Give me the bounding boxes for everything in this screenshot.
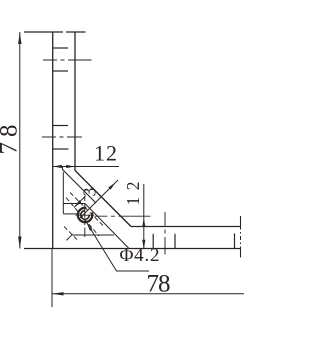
arrow left dim top (18, 32, 21, 44)
arrow vert dim up (142, 218, 145, 227)
top end line of vertical arm with extension to left dim (24, 31, 86, 33)
left outer edge of vertical arm (52, 32, 54, 249)
svg-text:78: 78 (147, 271, 171, 298)
right end line of horizontal arm (solid-dashdot-solid) (240, 216, 242, 258)
arrow gap dim lower (74, 200, 81, 207)
center line hole group 1 vertical arm (43, 59, 92, 61)
inner right edge of vertical arm (74, 32, 76, 171)
arrow vert dim down (142, 240, 145, 249)
pocket bottom left chamfer (66, 234, 72, 240)
center line hole horizontal arm (164, 212, 166, 255)
arrow leader tip (87, 222, 93, 231)
svg-text:78: 78 (0, 125, 23, 155)
gusset outer parallel line diag A with stub and shelf (63, 167, 97, 203)
tick slot lines on horizontal arm (152, 234, 154, 249)
hole inner ring arc (81, 211, 90, 220)
svg-text:12: 12 (94, 141, 117, 166)
tick slot lines on vertical arm group 2 (53, 125, 68, 127)
pocket left edge (62, 172, 64, 214)
arrow bottom dim left (52, 292, 63, 295)
vertical dimension line 12 (143, 184, 145, 249)
pocket mid edge to circle (63, 213, 78, 215)
svg-text:Φ4.2: Φ4.2 (120, 245, 160, 266)
hole vertical center line (84, 196, 86, 237)
arrow left dim bottom (18, 237, 21, 249)
bottom outer edge with extension to left dim (24, 248, 241, 250)
svg-text:12: 12 (123, 182, 143, 206)
hole outer ring with NE opening (78, 208, 92, 222)
gusset inner hypotenuse diag B (75, 171, 131, 227)
hole horizontal center line (76, 214, 95, 216)
bottom dimension left extension (51, 249, 53, 308)
leader line phi 4.2 (87, 222, 150, 271)
svg-text:3: 3 (79, 188, 99, 197)
gap dimension line 3 diagonal (80, 180, 118, 218)
top dimension line 12 (53, 166, 119, 168)
pocket bottom edge (73, 234, 114, 236)
arrow gap dim upper (108, 183, 115, 190)
leader to text 3 (74, 196, 86, 208)
hidden hole wall line 2 (66, 198, 99, 237)
pocket top edge (63, 203, 85, 205)
hidden pocket wall line lower left (64, 227, 78, 241)
top inner edge of horizontal arm (131, 226, 241, 228)
bottom dimension line 78 (52, 293, 244, 295)
center line hole group 2 vertical arm (42, 136, 82, 138)
tick slot lines on vertical arm group 1 (53, 47, 68, 49)
arrow top dim left (53, 165, 62, 168)
hidden hole wall line 1 (70, 193, 104, 227)
pocket chamfer edge C (85, 204, 129, 249)
arrow top dim right (66, 165, 75, 168)
left dimension line 78 (19, 32, 21, 249)
